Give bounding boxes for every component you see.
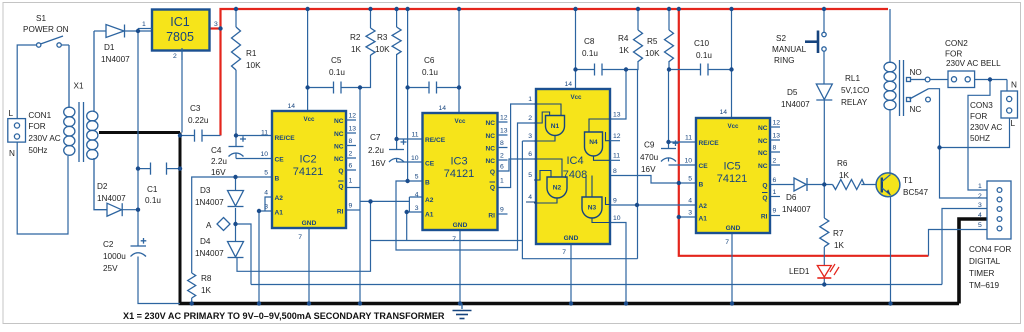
wire: C3 left lead xyxy=(180,135,194,137)
junction dot at relay common node xyxy=(937,145,941,149)
svg-text:16V: 16V xyxy=(211,168,226,177)
svg-text:NC: NC xyxy=(910,105,922,114)
svg-text:74121: 74121 xyxy=(293,166,324,178)
wire: +5V drop to IC3 B xyxy=(407,9,409,181)
resistor R8 xyxy=(188,273,212,298)
svg-text:C4: C4 xyxy=(211,146,222,155)
gate N3 xyxy=(582,197,602,218)
svg-text:1N4007: 1N4007 xyxy=(195,249,224,258)
svg-text:DIGITAL: DIGITAL xyxy=(969,257,1001,266)
svg-text:10: 10 xyxy=(411,155,419,162)
svg-text:CON2: CON2 xyxy=(945,39,968,48)
svg-text:7: 7 xyxy=(298,234,302,241)
svg-text:1: 1 xyxy=(142,21,146,28)
wire: +5V red rail xyxy=(221,9,889,136)
svg-text:GND: GND xyxy=(302,220,317,227)
svg-text:C8: C8 xyxy=(584,37,595,46)
capacitor C9 electrolytic xyxy=(640,140,679,174)
svg-text:2: 2 xyxy=(773,158,777,165)
transistor T1 BC547 xyxy=(876,173,928,197)
wire: LED1 to bottom bus xyxy=(823,279,825,285)
resistor R2 xyxy=(350,28,375,55)
switch S1 xyxy=(23,14,69,47)
wire: C4 bottom to IC2 pin10 CE lead xyxy=(236,154,272,159)
svg-text:NC: NC xyxy=(334,144,344,151)
svg-text:R5: R5 xyxy=(647,37,658,46)
svg-text:13: 13 xyxy=(613,112,621,119)
wire: red from IC1 pin 3 xyxy=(209,27,221,29)
wire: R1 bottom to IC2 pin11 node xyxy=(235,70,237,136)
svg-text:9: 9 xyxy=(773,208,777,215)
svg-text:1K: 1K xyxy=(834,241,845,250)
svg-text:N: N xyxy=(9,149,15,158)
junction dots on 0V line xyxy=(178,133,182,171)
wire: IC2 Vcc line from rail xyxy=(307,9,309,111)
svg-text:Q: Q xyxy=(490,169,495,176)
svg-text:A2: A2 xyxy=(275,195,284,202)
svg-text:A2: A2 xyxy=(425,197,434,204)
wire: D1 cathode to IC1 pin1 xyxy=(125,29,152,32)
svg-text:4: 4 xyxy=(978,212,982,219)
svg-text:Q: Q xyxy=(762,183,767,190)
svg-text:N1: N1 xyxy=(551,123,560,130)
svg-text:74121: 74121 xyxy=(717,173,748,185)
wire: R5 bottom to C10 node xyxy=(668,61,670,70)
wire: IC4 pin8 to IC5 B xyxy=(610,176,679,184)
svg-text:D6: D6 xyxy=(786,193,797,202)
svg-text:1K: 1K xyxy=(619,46,630,55)
capacitor C4 electrolytic xyxy=(211,136,246,177)
resistor R6 xyxy=(833,159,865,190)
junction dots on C8/C10 row xyxy=(573,67,733,71)
wire: R6 to T1 base xyxy=(861,184,882,186)
wire: R7 to LED1 xyxy=(823,247,825,266)
wire: IC5 Q-bar stub xyxy=(770,196,780,198)
svg-text:9: 9 xyxy=(500,207,504,214)
svg-text:1N4007: 1N4007 xyxy=(97,194,126,203)
wire: black ground bottom rail xyxy=(179,302,960,306)
svg-text:Q: Q xyxy=(338,168,343,175)
wire: R3 top to rail xyxy=(396,9,398,27)
wire: C3 right lead xyxy=(203,135,221,137)
svg-text:NC: NC xyxy=(485,146,495,153)
svg-text:POWER ON: POWER ON xyxy=(23,25,69,34)
svg-text:IC2: IC2 xyxy=(299,154,316,166)
svg-text:6: 6 xyxy=(500,164,504,171)
svg-text:C10: C10 xyxy=(694,39,709,48)
svg-text:50Hz: 50Hz xyxy=(28,146,47,155)
svg-text:LED1: LED1 xyxy=(789,267,810,276)
resistor R7 xyxy=(820,218,845,250)
svg-text:16V: 16V xyxy=(641,165,656,174)
svg-text:X1: X1 xyxy=(74,82,84,91)
svg-text:3: 3 xyxy=(415,205,419,212)
svg-text:IC1: IC1 xyxy=(170,15,190,29)
wire: C8 left lead xyxy=(576,69,595,71)
svg-text:NC: NC xyxy=(334,156,344,163)
svg-text:CE: CE xyxy=(699,163,709,170)
svg-text:N: N xyxy=(1011,81,1017,90)
svg-text:R7: R7 xyxy=(833,229,844,238)
junction dots on +5V rail xyxy=(234,7,826,11)
op-amp timer IC3 74121 xyxy=(411,105,508,243)
wire: IC5 A1 lead from red xyxy=(679,216,696,218)
wire: IC4 pin9 / IC5 A2 line xyxy=(610,204,696,206)
diode D3 xyxy=(195,186,244,207)
svg-text:11: 11 xyxy=(613,153,620,160)
svg-text:RE/CE: RE/CE xyxy=(425,137,446,144)
svg-text:NO: NO xyxy=(910,68,922,77)
wire: IC5 RI stub xyxy=(770,215,780,217)
transformer X1 xyxy=(64,31,107,210)
svg-text:8: 8 xyxy=(773,145,777,152)
svg-text:A1: A1 xyxy=(275,210,284,217)
svg-text:CON1: CON1 xyxy=(28,111,51,120)
svg-text:6: 6 xyxy=(773,177,777,184)
svg-text:9: 9 xyxy=(613,198,617,205)
svg-text:13: 13 xyxy=(349,126,357,133)
wire: C8 right lead to R4 xyxy=(603,61,639,70)
capacitor C6 xyxy=(422,56,438,94)
svg-text:N2: N2 xyxy=(553,185,562,192)
junction dot at IC1 output xyxy=(218,26,222,30)
svg-text:GND: GND xyxy=(453,222,468,229)
svg-text:C7: C7 xyxy=(370,133,381,142)
svg-text:12: 12 xyxy=(773,120,781,127)
wire: D2 cathode / C1 / C2 node vertical xyxy=(123,31,139,246)
wire: black lead to CON4 pin 4 xyxy=(959,219,987,304)
wire: C1 left lead xyxy=(138,168,150,170)
wire: C5 left lead xyxy=(308,87,333,89)
svg-text:4: 4 xyxy=(415,192,419,199)
wire: C2 bottom to ground rail xyxy=(138,257,180,304)
svg-text:230V AC: 230V AC xyxy=(28,134,60,143)
junction dots on B trigger lines xyxy=(233,175,681,185)
svg-text:RI: RI xyxy=(761,214,768,221)
svg-text:C3: C3 xyxy=(190,104,201,113)
wire: R1 top connection to rail xyxy=(235,9,237,27)
svg-text:RING: RING xyxy=(774,56,794,65)
resistor R3 xyxy=(375,27,401,55)
svg-text:6: 6 xyxy=(528,151,532,158)
svg-text:FOR: FOR xyxy=(945,50,962,59)
wire: IC5 Q to D6 xyxy=(770,184,794,186)
wire: R5 top to rail xyxy=(668,9,670,30)
wire: red vertical to IC5 column xyxy=(679,9,929,256)
connector CON2 xyxy=(945,39,1001,88)
svg-text:D2: D2 xyxy=(97,182,108,191)
wire: IC4 GND to rail xyxy=(570,244,572,304)
svg-text:5: 5 xyxy=(264,170,268,177)
wire: D6 cathode to R6 node xyxy=(807,184,833,186)
wire: IC5 Vcc line from rail xyxy=(731,9,733,118)
svg-text:14: 14 xyxy=(287,103,295,110)
svg-text:B: B xyxy=(425,180,430,187)
wire: IC2 Q-bar net vertical xyxy=(359,88,361,304)
wire: transformer centre-tap black line xyxy=(99,131,180,134)
wire: C5 right lead to R2 xyxy=(342,55,371,88)
svg-text:NC: NC xyxy=(758,150,768,157)
diode D6 xyxy=(782,178,811,214)
wire: R5 node down to IC5 pin11 xyxy=(668,70,670,143)
svg-text:A2: A2 xyxy=(699,203,708,210)
junction dots on RE/CE nodes xyxy=(234,133,671,144)
svg-text:3: 3 xyxy=(264,204,268,211)
switch S2 manual ring xyxy=(772,31,826,66)
svg-text:NC: NC xyxy=(758,138,768,145)
wire: IC3 pin11 RE/CE lead xyxy=(397,139,423,149)
capacitor C2 electrolytic xyxy=(103,238,146,273)
svg-text:3: 3 xyxy=(528,133,532,140)
svg-text:IC5: IC5 xyxy=(723,161,740,173)
wire: IC3 B lead and loop to IC4 pin2 xyxy=(396,123,536,250)
svg-text:10: 10 xyxy=(613,215,621,222)
wire: IC2 GND to rail xyxy=(308,228,310,304)
svg-text:11: 11 xyxy=(411,132,418,139)
wire: CON1 N loop to primary bottom xyxy=(17,142,68,234)
junction dots on rectifier node xyxy=(136,29,140,212)
svg-text:6: 6 xyxy=(349,163,353,170)
wire: CON4 pin3 to bottom bus xyxy=(942,209,987,285)
svg-text:16V: 16V xyxy=(371,159,386,168)
svg-text:2.2u: 2.2u xyxy=(211,157,227,166)
capacitor C7 electrolytic xyxy=(368,133,407,168)
svg-text:4: 4 xyxy=(264,190,268,197)
svg-text:1K: 1K xyxy=(201,286,212,295)
wire: IC2 A1 ground drop xyxy=(258,211,260,304)
svg-text:1N4007: 1N4007 xyxy=(782,205,811,214)
svg-text:1000u: 1000u xyxy=(103,252,126,261)
svg-text:S1: S1 xyxy=(36,14,46,23)
junction dot at R6/R7/D5 node xyxy=(822,182,826,186)
svg-text:C9: C9 xyxy=(644,141,655,150)
wire: IC3 A1 node drop to mid bus xyxy=(406,212,408,241)
svg-text:230V AC: 230V AC xyxy=(970,123,1002,132)
svg-text:D3: D3 xyxy=(200,186,211,195)
wire: black vertical 0V line xyxy=(179,133,182,304)
svg-text:R3: R3 xyxy=(377,33,388,42)
svg-text:S2: S2 xyxy=(776,34,786,43)
wire: C8 node to IC4 pin13 xyxy=(610,70,626,120)
svg-text:14: 14 xyxy=(564,81,572,88)
wire: C9 bottom to IC5 pin10 lead xyxy=(669,158,697,165)
svg-text:N4: N4 xyxy=(589,139,598,146)
svg-text:Q: Q xyxy=(338,184,343,191)
svg-text:5: 5 xyxy=(688,176,692,183)
wire: node to CON3 N xyxy=(1006,80,1008,92)
ground symbol xyxy=(453,304,472,319)
svg-text:11: 11 xyxy=(685,135,692,142)
wire: T1 emitter to ground rail xyxy=(890,195,892,304)
svg-text:A1: A1 xyxy=(425,212,434,219)
svg-text:Vcc: Vcc xyxy=(303,116,315,123)
svg-text:Vcc: Vcc xyxy=(570,94,582,101)
wire: IC4 pin10 ground xyxy=(610,223,626,304)
wire: IC3 GND to rail xyxy=(459,230,461,304)
gate N2 xyxy=(547,177,567,198)
gate N1 xyxy=(546,116,565,136)
wire: relay coil bottom to T1 collector xyxy=(889,109,891,175)
junction dot at node A xyxy=(233,222,237,226)
wire: Q-bar jog to IC3 A2 xyxy=(360,197,423,212)
svg-text:NC: NC xyxy=(334,118,344,125)
connector CON3 xyxy=(970,81,1018,144)
svg-text:7805: 7805 xyxy=(166,30,194,44)
wire: bottom signal bus xyxy=(251,284,942,286)
wire: C7 bottom to IC3 pin10 lead xyxy=(397,159,423,163)
svg-text:8: 8 xyxy=(500,140,504,147)
svg-text:7: 7 xyxy=(725,239,729,246)
svg-text:4: 4 xyxy=(528,194,532,201)
svg-text:1: 1 xyxy=(773,189,777,196)
svg-text:L: L xyxy=(9,109,14,118)
svg-text:R8: R8 xyxy=(201,274,212,283)
op-amp timer IC5 74121 xyxy=(684,109,780,246)
svg-text:X1 = 230V AC PRIMARY TO 9V–0–9: X1 = 230V AC PRIMARY TO 9V–0–9V,500mA SE… xyxy=(123,311,445,321)
svg-text:11: 11 xyxy=(261,130,268,137)
wire: node A to D4 xyxy=(235,224,237,241)
op-amp timer IC2 74121 xyxy=(260,103,356,241)
svg-text:13: 13 xyxy=(773,133,781,140)
wire: IC2 pin9 RI stub xyxy=(346,209,360,211)
wire: common down to CON4 pin2 xyxy=(940,148,988,199)
svg-text:FOR: FOR xyxy=(970,112,987,121)
svg-text:NC: NC xyxy=(334,131,344,138)
svg-text:5V,1CO: 5V,1CO xyxy=(841,86,869,95)
wire: node to CON4 pin1 xyxy=(968,80,990,191)
wire: R8 bottom to ground rail xyxy=(191,298,193,304)
relay contacts NO/NC xyxy=(907,68,931,114)
svg-text:IC4: IC4 xyxy=(566,155,583,167)
svg-text:1: 1 xyxy=(500,178,504,185)
wire: C10 left lead xyxy=(669,69,700,71)
svg-text:Vcc: Vcc xyxy=(454,118,466,125)
capacitor C5 xyxy=(329,56,345,94)
svg-text:1: 1 xyxy=(528,96,532,103)
wire: IC3 RI stub xyxy=(498,213,508,215)
resistor R4 xyxy=(618,30,643,62)
wire: C6 right lead xyxy=(437,87,459,89)
svg-text:NC: NC xyxy=(485,120,495,127)
junction dot at CON2/CON3 node xyxy=(988,77,992,81)
svg-text:3: 3 xyxy=(978,202,982,209)
svg-text:9: 9 xyxy=(349,203,353,210)
wire: relay feed from rail xyxy=(889,9,891,63)
svg-text:12: 12 xyxy=(613,133,621,140)
wire: mid bus to IC4 pin3 xyxy=(371,141,638,259)
junction dots on ground rail xyxy=(190,301,893,305)
wire: S1 to CON1 L xyxy=(17,45,36,119)
svg-text:C1: C1 xyxy=(147,185,158,194)
svg-text:RL1: RL1 xyxy=(845,74,860,83)
resistor R5 xyxy=(645,30,674,62)
wire: R4 top to rail xyxy=(637,9,639,30)
svg-text:CE: CE xyxy=(275,157,285,164)
svg-text:10K: 10K xyxy=(645,49,660,58)
svg-text:2.2u: 2.2u xyxy=(368,146,384,155)
svg-text:MANUAL: MANUAL xyxy=(772,45,807,54)
svg-text:NC: NC xyxy=(485,133,495,140)
LED1 xyxy=(789,264,839,278)
svg-text:5: 5 xyxy=(415,174,419,181)
capacitor C3 xyxy=(188,104,209,142)
wire: blue link red end to CON4 pin5 xyxy=(929,230,988,256)
svg-text:7: 7 xyxy=(452,236,456,243)
svg-text:N3: N3 xyxy=(588,205,597,212)
svg-text:0.22u: 0.22u xyxy=(188,116,209,125)
svg-text:0.1u: 0.1u xyxy=(422,68,438,77)
wire: relay common to CON3/CON4 xyxy=(929,89,940,148)
svg-text:2: 2 xyxy=(528,115,532,122)
wire: node A branch down to bottom bus xyxy=(236,224,252,285)
wire: S1 to transformer primary top xyxy=(61,44,69,46)
svg-text:4: 4 xyxy=(688,198,692,205)
wire: IC4 Vcc line from rail xyxy=(575,9,577,89)
svg-text:74121: 74121 xyxy=(444,168,475,180)
wire: common junction to CON3 L xyxy=(940,118,1010,148)
svg-text:8: 8 xyxy=(613,168,617,175)
wire: IC5 B lead from red xyxy=(679,182,696,184)
svg-text:RELAY: RELAY xyxy=(841,98,868,107)
svg-text:14: 14 xyxy=(719,109,727,116)
svg-text:C5: C5 xyxy=(331,56,342,65)
wire: secondary top to D1 xyxy=(94,30,106,32)
svg-text:1K: 1K xyxy=(839,171,850,180)
svg-text:5: 5 xyxy=(528,172,532,179)
svg-text:10: 10 xyxy=(684,158,692,165)
svg-text:GND: GND xyxy=(726,225,741,232)
wire: IC1 pin2 ground drop xyxy=(181,48,183,133)
diode D5 xyxy=(781,84,832,109)
svg-text:CON4 FOR: CON4 FOR xyxy=(969,245,1011,254)
wire: IC3 Q to IC4 pin6 xyxy=(498,159,537,171)
wire: D3 cathode to node A xyxy=(235,208,237,224)
svg-text:NC: NC xyxy=(485,158,495,165)
svg-text:CE: CE xyxy=(425,161,435,168)
svg-text:RI: RI xyxy=(337,209,344,216)
svg-text:1K: 1K xyxy=(351,45,362,54)
svg-text:RI: RI xyxy=(488,213,495,220)
svg-text:1N4007: 1N4007 xyxy=(781,100,810,109)
svg-text:5: 5 xyxy=(978,222,982,229)
svg-text:3: 3 xyxy=(688,210,692,217)
svg-text:FOR: FOR xyxy=(28,122,45,131)
resistor R1 xyxy=(232,27,262,70)
svg-text:D4: D4 xyxy=(200,237,211,246)
wire: IC2 A2/A1 tie xyxy=(259,197,272,211)
svg-text:GND: GND xyxy=(564,235,579,242)
svg-text:10K: 10K xyxy=(246,61,261,70)
wire: D5 to R6/R7 node xyxy=(823,101,825,185)
wire: IC5 GND to rail xyxy=(731,233,733,304)
svg-text:0.1u: 0.1u xyxy=(329,68,345,77)
wire: IC5 pin11 lead xyxy=(669,142,697,148)
svg-text:TM–619: TM–619 xyxy=(969,281,999,290)
capacitor C10 xyxy=(694,39,712,76)
svg-text:C6: C6 xyxy=(424,56,435,65)
svg-text:1N4007: 1N4007 xyxy=(195,198,224,207)
svg-text:D5: D5 xyxy=(787,88,798,97)
wire: IC2 pin11 RE/CE lead xyxy=(236,136,272,147)
wire: IC3 Vcc line from rail xyxy=(458,9,460,113)
svg-text:3: 3 xyxy=(214,21,218,28)
svg-text:B: B xyxy=(699,182,704,189)
wire: R2 top to rail xyxy=(370,9,372,28)
svg-text:12: 12 xyxy=(500,115,508,122)
svg-text:NC: NC xyxy=(758,163,768,170)
svg-text:470u: 470u xyxy=(640,153,659,162)
svg-text:Q: Q xyxy=(762,195,767,202)
